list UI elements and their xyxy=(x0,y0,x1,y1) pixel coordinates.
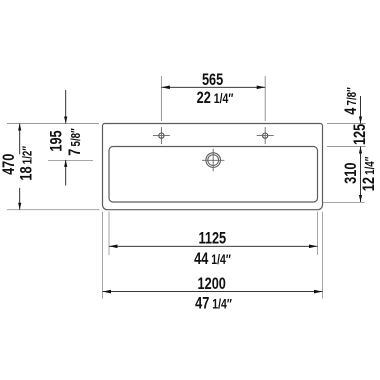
svg-text:44 1/4″: 44 1/4″ xyxy=(194,249,231,268)
svg-text:310: 310 xyxy=(341,163,360,184)
svg-text:1125: 1125 xyxy=(198,229,226,248)
svg-text:22 1/4″: 22 1/4″ xyxy=(197,88,234,107)
svg-text:1200: 1200 xyxy=(198,274,226,293)
svg-text:195: 195 xyxy=(47,130,66,151)
svg-text:47 1/4″: 47 1/4″ xyxy=(195,294,232,313)
svg-text:470: 470 xyxy=(0,154,19,175)
svg-text:565: 565 xyxy=(202,70,223,89)
svg-text:125: 125 xyxy=(350,124,369,145)
